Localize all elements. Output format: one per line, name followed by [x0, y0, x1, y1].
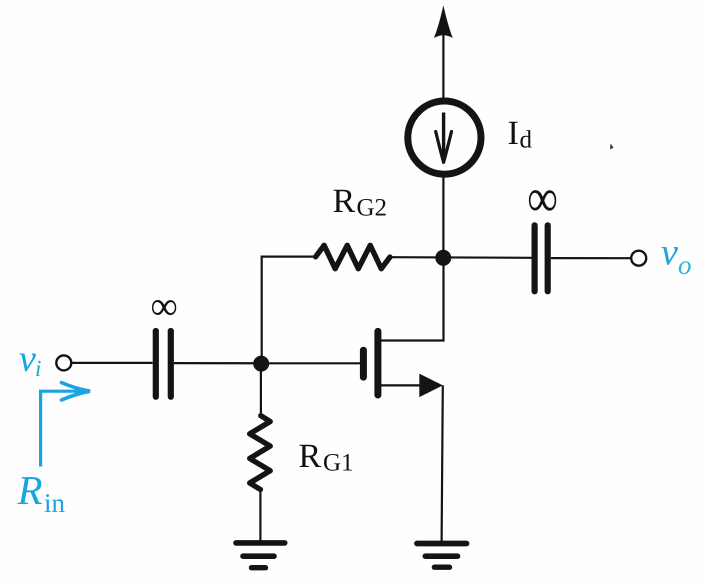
svg-text:o: o: [678, 250, 692, 280]
label Id: [508, 115, 533, 154]
wire: RG2 to node to output capacitor: [390, 256, 532, 259]
wire: output capacitor to vo terminal: [551, 257, 631, 259]
label vi: [19, 338, 41, 381]
Rin indicator arrow (cyan): [41, 391, 76, 466]
capacitor C2 (output, plates): [535, 225, 548, 291]
svg-text:v: v: [661, 232, 678, 274]
label: infinity (input capacitor): [151, 284, 178, 328]
svg-text:G2: G2: [357, 195, 388, 222]
svg-text:R: R: [17, 467, 43, 513]
Rin arrowhead (cyan): [62, 383, 91, 400]
wire: gate node down to RG1: [260, 363, 262, 416]
transistor Q1: drain lead: [378, 257, 444, 341]
svg-text:∞: ∞: [151, 284, 178, 328]
current source Id circle: [408, 101, 481, 174]
svg-text:in: in: [44, 488, 66, 518]
wire: RG1 to ground: [259, 490, 261, 542]
svg-text:d: d: [520, 127, 533, 154]
svg-text:∞: ∞: [527, 169, 558, 229]
svg-text:i: i: [35, 356, 41, 381]
current source arrow (points down): [436, 113, 452, 163]
transistor Q1: channel bar: [374, 331, 381, 395]
terminal: vi open circle: [56, 355, 71, 370]
label RG2: [333, 183, 388, 222]
label RG1: [299, 438, 354, 477]
arrowhead: supply arrow pointing up: [434, 5, 453, 38]
transistor Q1: source arrowhead: [419, 374, 443, 398]
wire: source to ground: [442, 385, 443, 541]
speck artifact: [610, 144, 614, 150]
node: gate node junction dot: [253, 356, 269, 372]
svg-text:I: I: [508, 115, 519, 152]
transistor Q1: gate bar: [360, 350, 367, 377]
wire: input capacitor to gate node: [174, 362, 262, 364]
svg-text:v: v: [19, 338, 36, 380]
ground (below source): [417, 544, 467, 568]
label: infinity (output capacitor): [527, 169, 558, 229]
resistor RG2: [316, 245, 390, 268]
svg-text:R: R: [299, 438, 322, 475]
svg-text:G1: G1: [323, 450, 354, 477]
wire: left branch vertical + horizontal to RG2: [262, 257, 316, 364]
resistor RG1: [250, 416, 271, 490]
terminal: vo open circle: [631, 251, 646, 266]
transistor Q1: source lead: [378, 384, 421, 386]
label vo: [661, 232, 692, 281]
node: drain node junction dot: [435, 250, 451, 266]
wire: current source to drain node: [442, 176, 444, 258]
wire: supply lead above current source: [442, 28, 444, 99]
wire: gate node to MOSFET gate: [262, 362, 361, 364]
svg-text:R: R: [333, 183, 356, 220]
wire: vi terminal to input capacitor: [72, 362, 152, 364]
ground (below RG1): [236, 543, 285, 568]
label Rin: [17, 467, 66, 518]
capacitor C1 (input, plates): [156, 331, 171, 397]
